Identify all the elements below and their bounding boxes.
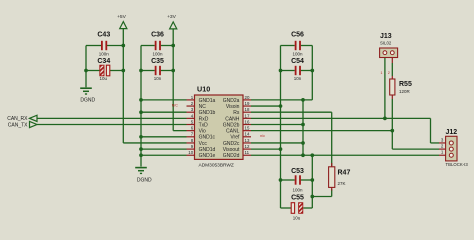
svg-text:TxD: TxD <box>199 122 209 128</box>
svg-text:CAN_RX: CAN_RX <box>7 116 28 122</box>
svg-text:R47: R47 <box>338 170 351 177</box>
svg-text:DGND: DGND <box>137 177 152 183</box>
svg-text:CAN_TX: CAN_TX <box>8 122 28 128</box>
svg-text:C43: C43 <box>97 32 110 39</box>
svg-text:C53: C53 <box>291 168 304 175</box>
svg-text:TBLOCK-I3: TBLOCK-I3 <box>446 162 469 167</box>
svg-text:100n: 100n <box>99 51 110 56</box>
svg-text:15: 15 <box>245 126 250 131</box>
svg-text:Rs: Rs <box>233 110 240 116</box>
svg-text:10n: 10n <box>294 76 302 81</box>
svg-text:J13: J13 <box>380 33 392 40</box>
svg-text:GND2a: GND2a <box>223 98 240 104</box>
svg-text:2: 2 <box>388 71 390 75</box>
svg-text:Visoout: Visoout <box>223 147 240 153</box>
svg-text:13: 13 <box>245 138 250 143</box>
svg-text:C54: C54 <box>291 58 304 65</box>
svg-text:120R: 120R <box>399 89 411 94</box>
svg-text:Vref: Vref <box>230 135 240 141</box>
svg-text:CANL: CANL <box>226 129 240 135</box>
svg-text:12: 12 <box>245 144 250 149</box>
svg-text:n/c: n/c <box>260 134 265 138</box>
svg-text:DGND: DGND <box>80 97 95 103</box>
svg-text:100n: 100n <box>152 51 163 56</box>
svg-text:+3V: +3V <box>167 14 177 20</box>
svg-text:R55: R55 <box>399 81 412 88</box>
svg-text:14: 14 <box>245 132 250 137</box>
svg-text:11: 11 <box>245 150 250 155</box>
svg-text:C35: C35 <box>151 58 164 65</box>
svg-text:C56: C56 <box>291 32 304 39</box>
svg-text:10u: 10u <box>293 215 301 220</box>
svg-text:N/C: N/C <box>172 103 179 107</box>
svg-text:GND1d: GND1d <box>199 147 216 153</box>
svg-text:27K: 27K <box>338 181 346 186</box>
svg-text:17: 17 <box>245 113 250 118</box>
svg-text:Vio: Vio <box>199 129 206 135</box>
svg-text:C55: C55 <box>291 195 304 202</box>
svg-text:C36: C36 <box>151 32 164 39</box>
svg-text:10n: 10n <box>154 76 162 81</box>
svg-text:18: 18 <box>245 107 250 112</box>
svg-text:GND1b: GND1b <box>199 110 216 116</box>
svg-text:J12: J12 <box>446 129 458 136</box>
svg-text:GND1c: GND1c <box>199 135 216 141</box>
svg-text:1: 1 <box>381 71 383 75</box>
svg-text:100n: 100n <box>292 51 303 56</box>
svg-text:CANH: CANH <box>225 116 240 122</box>
svg-text:GND2c: GND2c <box>223 141 240 147</box>
svg-text:+5V: +5V <box>117 14 127 20</box>
svg-text:RxD: RxD <box>199 116 209 122</box>
svg-text:Visoin: Visoin <box>226 104 240 110</box>
svg-text:100n: 100n <box>292 188 303 193</box>
svg-text:10: 10 <box>188 150 193 155</box>
svg-text:10u: 10u <box>100 76 108 81</box>
svg-text:ADM3053BRWZ: ADM3053BRWZ <box>199 163 234 169</box>
svg-text:GND1e: GND1e <box>199 153 216 159</box>
svg-text:SIL02: SIL02 <box>380 40 392 45</box>
svg-text:GND1a: GND1a <box>199 98 216 104</box>
svg-text:19: 19 <box>245 101 250 106</box>
svg-text:GND2b: GND2b <box>223 122 240 128</box>
svg-text:NC: NC <box>199 104 207 110</box>
svg-text:U10: U10 <box>197 84 210 93</box>
svg-text:Vcc: Vcc <box>199 141 208 147</box>
svg-text:GND2d: GND2d <box>223 153 240 159</box>
svg-text:16: 16 <box>245 119 250 124</box>
svg-text:20: 20 <box>245 95 250 100</box>
svg-text:C34: C34 <box>97 58 110 65</box>
